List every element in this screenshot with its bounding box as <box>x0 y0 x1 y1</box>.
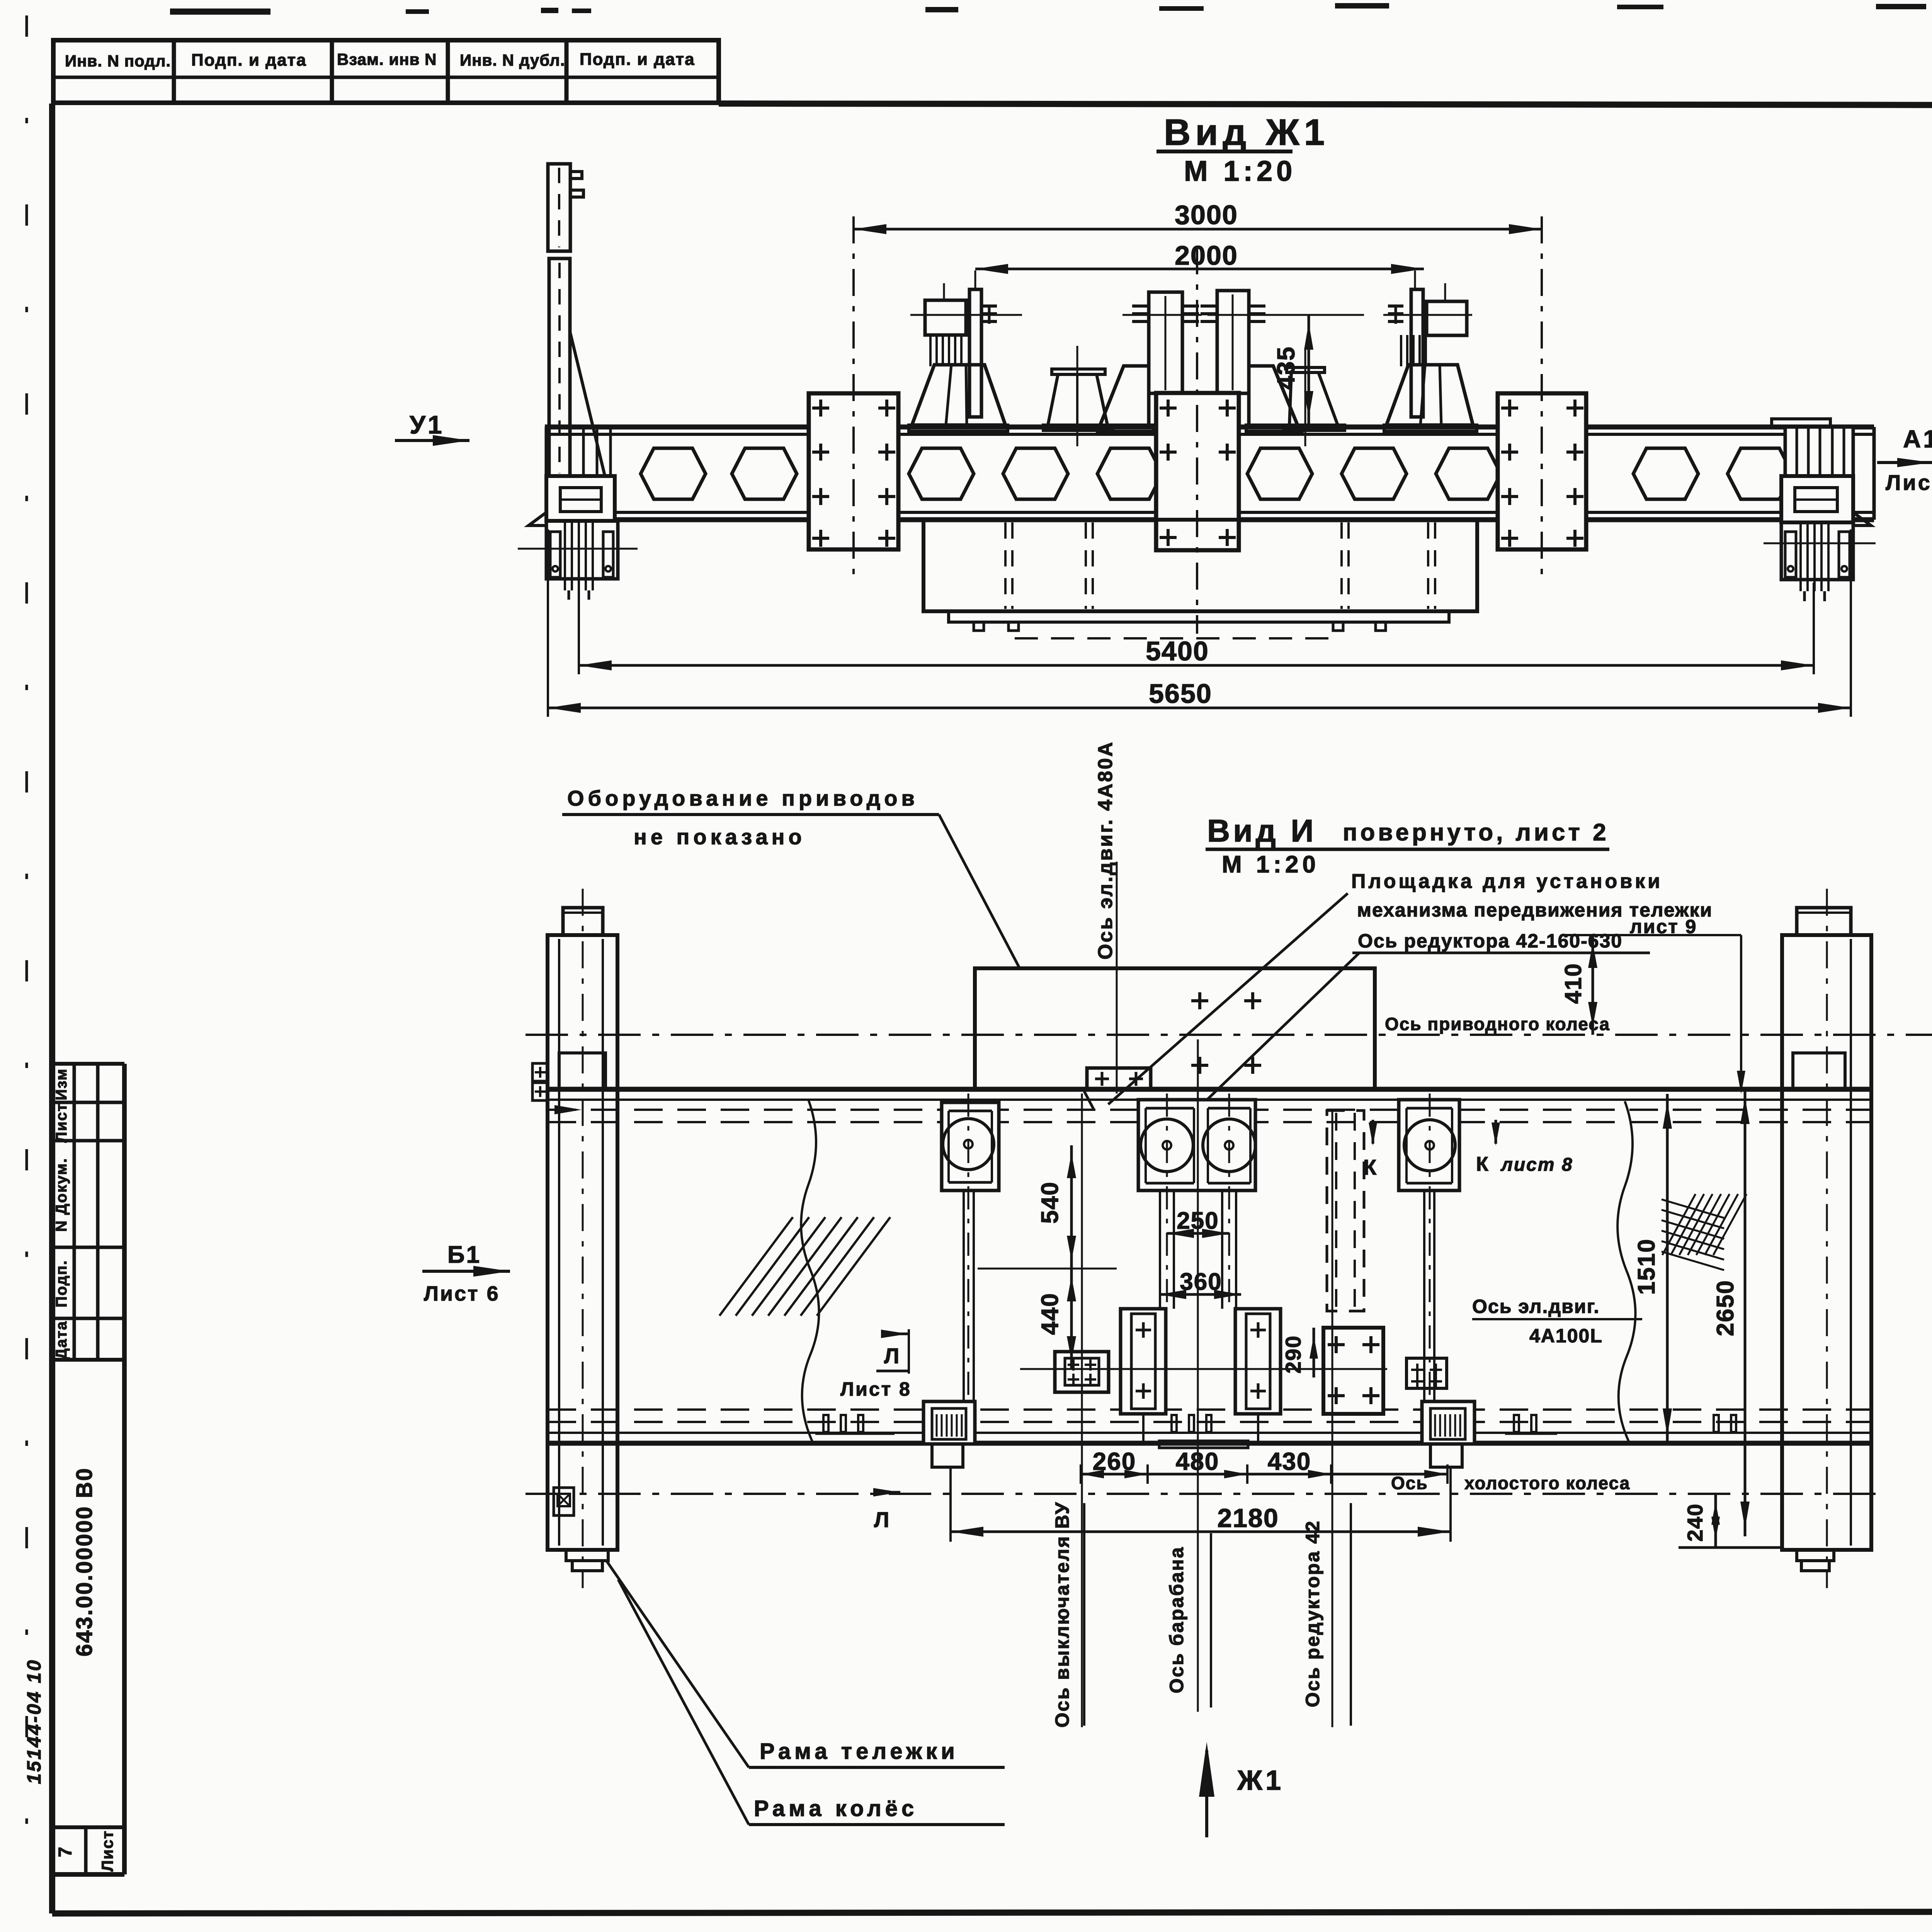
drive unit 1: centerlines <box>943 283 945 301</box>
svg-text:Ж1: Ж1 <box>1237 1765 1284 1796</box>
right clamp block <box>1235 1309 1281 1414</box>
svg-text:Взам. инв N: Взам. инв N <box>337 50 437 68</box>
drive unit 2: pedestal <box>1100 366 1149 425</box>
svg-text:Изм: Изм <box>53 1068 70 1100</box>
svg-text:Подп.: Подп. <box>53 1260 70 1307</box>
beam web hexagonal openings <box>641 448 706 499</box>
left column collar <box>559 1053 605 1089</box>
section mark Л Лист 8 <box>881 1330 908 1338</box>
dimension 5400 <box>578 583 580 674</box>
svg-text:М 1:20: М 1:20 <box>1184 155 1296 187</box>
drive unit 4: centerlines <box>1444 283 1446 302</box>
dimension 5650 <box>547 529 549 717</box>
dimension 3000 <box>854 228 1542 231</box>
svg-text:240: 240 <box>1683 1503 1707 1541</box>
svg-text:К: К <box>1476 1153 1490 1175</box>
dimension 540 <box>1070 1145 1073 1269</box>
dimension 435 <box>1308 315 1310 425</box>
castellated beam top flange <box>545 425 1874 430</box>
beam band bottom edge <box>548 1432 1871 1434</box>
svg-text:Б1: Б1 <box>447 1242 481 1268</box>
svg-text:410: 410 <box>1560 963 1586 1004</box>
svg-text:540: 540 <box>1037 1181 1063 1223</box>
svg-text:260: 260 <box>1093 1447 1136 1475</box>
left beam end bracket <box>546 476 615 521</box>
machinery platform <box>975 968 1375 1089</box>
bars below centre pulleys <box>1159 1190 1161 1309</box>
left column <box>548 935 617 1550</box>
dimension 250 <box>1167 1232 1229 1235</box>
svg-text:Ось: Ось <box>1391 1473 1428 1493</box>
centerline plate P3 <box>1541 216 1543 583</box>
small mounting plate <box>1406 1358 1447 1388</box>
svg-text:Лист 9: Лист 9 <box>1886 470 1932 495</box>
dimension 290 <box>1313 1328 1315 1378</box>
dimension 2180 <box>951 1531 1451 1533</box>
left mast lower segment <box>549 259 570 478</box>
reducer plate with bolts <box>1323 1328 1383 1414</box>
leader to platform from Площадка <box>1108 893 1348 1104</box>
svg-text:А1: А1 <box>1903 425 1932 453</box>
svg-text:Ось редуктора 42-160-630: Ось редуктора 42-160-630 <box>1358 930 1622 952</box>
leader lines лист 9 <box>1610 934 1741 936</box>
svg-text:К: К <box>1363 1155 1378 1179</box>
left column centerline <box>582 889 584 1588</box>
wavy break line left <box>801 1100 819 1441</box>
view direction arrow Ж1 <box>1205 1750 1208 1837</box>
svg-text:М 1:20: М 1:20 <box>1222 851 1320 878</box>
left end stiffeners <box>582 427 585 476</box>
svg-text:Лист: Лист <box>98 1830 116 1871</box>
left clamp block <box>1121 1309 1166 1414</box>
left wheel hanger (plan) <box>923 1401 975 1444</box>
svg-text:Дата: Дата <box>53 1321 70 1360</box>
beam band bottom dashed lines <box>548 1408 1871 1411</box>
svg-text:Ось выключателя ВУ: Ось выключателя ВУ <box>1051 1501 1073 1728</box>
svg-text:290: 290 <box>1281 1335 1305 1373</box>
svg-text:2000: 2000 <box>1175 240 1238 270</box>
left column foot <box>566 1550 608 1561</box>
left column lower bracket <box>554 1488 574 1515</box>
dimension 2000 <box>975 268 1424 270</box>
left mast upper segment <box>548 164 570 251</box>
svg-text:Вид И: Вид И <box>1207 813 1316 849</box>
drive housing box below beam <box>923 520 1477 611</box>
beam band top dashed lines <box>548 1109 1871 1111</box>
small gearbox <box>1055 1352 1109 1392</box>
svg-text:4А100L: 4А100L <box>1529 1325 1603 1347</box>
axis of idle wheel (chain line) <box>526 1493 1884 1495</box>
drive unit 3: column <box>1217 291 1249 393</box>
svg-text:Рама тележки: Рама тележки <box>760 1739 959 1764</box>
right column <box>1782 935 1871 1550</box>
mast bolts <box>570 172 582 179</box>
svg-text:холостого колеса: холостого колеса <box>1464 1473 1630 1493</box>
svg-text:Подп. и дата: Подп. и дата <box>580 50 695 69</box>
drive unit 4: sheave <box>1388 304 1403 308</box>
left margin dash-dot line <box>26 15 28 1874</box>
svg-text:2650: 2650 <box>1712 1280 1739 1336</box>
centerline plate P1 <box>852 216 855 583</box>
svg-text:2180: 2180 <box>1217 1503 1279 1533</box>
small stand A <box>1052 369 1105 374</box>
drum axis centerline <box>1197 1039 1199 1712</box>
drive unit 4: column <box>1411 289 1423 417</box>
svg-text:643.00.00000 В0: 643.00.00000 В0 <box>72 1467 97 1656</box>
beam band top edge <box>548 1087 1871 1092</box>
small plate on platform <box>1087 1068 1151 1089</box>
svg-text:360: 360 <box>1180 1269 1222 1295</box>
section arrow K лист 8 <box>1495 1120 1497 1144</box>
drive unit 1: column <box>969 289 981 417</box>
drive unit 1: pedestal <box>912 365 1005 425</box>
centerline plate P2 <box>1196 247 1198 634</box>
motor axis line <box>910 314 1022 316</box>
drive unit 3: sheaves <box>1201 304 1217 308</box>
drive unit 2: column <box>1149 292 1182 393</box>
dimension 1510 <box>1666 1094 1669 1443</box>
right column centerline <box>1826 889 1828 1588</box>
left side small plates <box>532 1063 548 1081</box>
svg-text:Ось эл.двиг. 4А80А: Ось эл.двиг. 4А80А <box>1094 741 1117 960</box>
svg-text:повернуто, лист 2: повернуто, лист 2 <box>1343 819 1609 846</box>
svg-text:Вид Ж1: Вид Ж1 <box>1164 112 1329 153</box>
diagonal hatch patch left <box>719 1217 793 1316</box>
dimensions 260 480 430 <box>1081 1473 1447 1476</box>
svg-text:250: 250 <box>1177 1207 1219 1234</box>
dimension 2650 <box>1744 1089 1747 1536</box>
svg-text:лист 8: лист 8 <box>1500 1155 1573 1175</box>
splice plate P1 <box>809 393 898 549</box>
left strip table <box>53 1062 124 1066</box>
axis line ВУ <box>1081 1094 1083 1727</box>
svg-text:Л: Л <box>884 1344 901 1368</box>
svg-text:3000: 3000 <box>1175 200 1238 230</box>
right pulley unit <box>1399 1100 1459 1190</box>
wavy break line right <box>1617 1101 1635 1441</box>
dimension 410 <box>1565 934 1610 936</box>
dashed reducer channel <box>1327 1111 1364 1311</box>
drive unit 4: motor <box>1427 301 1467 335</box>
svg-text:15144-04 10: 15144-04 10 <box>23 1659 45 1784</box>
axis эл.двиг vertical line <box>1116 862 1118 1094</box>
drive unit 4: belts <box>1400 335 1402 366</box>
svg-text:Лист 6: Лист 6 <box>424 1282 500 1305</box>
leader lines to frames <box>607 1561 749 1767</box>
dimension 240 bottom <box>1679 1546 1782 1549</box>
small stand C <box>1287 367 1325 372</box>
right wheel hanger (plan) <box>1422 1401 1475 1444</box>
svg-text:Оборудование приводов: Оборудование приводов <box>567 786 918 810</box>
beam bottom flange <box>545 511 1874 514</box>
svg-text:Рама колёс: Рама колёс <box>754 1796 918 1821</box>
svg-text:Ось барабана: Ось барабана <box>1166 1546 1187 1693</box>
svg-text:Ось эл.двиг.: Ось эл.двиг. <box>1472 1296 1600 1317</box>
svg-text:Площадка для установки: Площадка для установки <box>1351 870 1663 893</box>
svg-text:Л: Л <box>874 1507 891 1532</box>
svg-text:не показано: не показано <box>634 825 806 849</box>
beam end verticals <box>545 427 548 520</box>
svg-text:У1: У1 <box>410 410 444 439</box>
left wheel hanger <box>546 521 618 579</box>
section mark Л lower <box>873 1488 900 1497</box>
svg-text:Лист: Лист <box>53 1103 70 1143</box>
motor axis dash line <box>978 1268 1117 1270</box>
axis line редуктора <box>1332 1111 1333 1727</box>
svg-text:Лист 8: Лист 8 <box>840 1378 912 1400</box>
drive unit 2: sheaves <box>1132 304 1149 308</box>
drive unit 1: belts <box>929 335 932 366</box>
splice plate P2 <box>1156 393 1239 550</box>
comb ticks under beam <box>823 1415 828 1432</box>
left gusset <box>529 512 546 526</box>
svg-text:435: 435 <box>1272 346 1300 390</box>
svg-text:7: 7 <box>55 1846 76 1857</box>
svg-text:430: 430 <box>1268 1447 1311 1475</box>
top-left inventory table <box>53 40 719 103</box>
leader to platform from Ось редуктора <box>1199 953 1359 1107</box>
scan edge dashes top <box>170 9 270 15</box>
svg-text:5650: 5650 <box>1149 679 1212 709</box>
right beam end bracket <box>1781 476 1853 522</box>
drawing frame border <box>49 104 55 1913</box>
small arrow on beam at left column <box>554 1105 582 1114</box>
svg-text:Ось приводного колеса: Ось приводного колеса <box>1385 1014 1610 1034</box>
drive unit 1: sheave <box>981 304 997 308</box>
right column foot <box>1797 1550 1834 1561</box>
section arrow K <box>1372 1120 1374 1144</box>
svg-text:440: 440 <box>1037 1293 1063 1335</box>
svg-text:Ось редуктора 42: Ось редуктора 42 <box>1302 1520 1323 1707</box>
right gusset <box>1853 512 1871 526</box>
drive unit 4: pedestal <box>1386 365 1473 425</box>
svg-text:1510: 1510 <box>1633 1238 1660 1295</box>
mast diagonal brace <box>570 330 605 477</box>
left pulley unit <box>942 1102 999 1190</box>
right column collar <box>1793 1053 1845 1089</box>
svg-text:Подп. и дата: Подп. и дата <box>191 51 307 70</box>
svg-text:N Докум.: N Докум. <box>53 1158 70 1232</box>
centre pulley pair unit <box>1138 1100 1255 1190</box>
axis of drive wheel (chain line) <box>526 1034 1932 1036</box>
housing hooks <box>974 622 984 631</box>
splice plate P3 <box>1498 393 1586 549</box>
dimension 360 <box>1159 1293 1241 1296</box>
housing bottom lip <box>949 611 1449 622</box>
dimension 440 <box>1070 1269 1073 1369</box>
drive unit 3: pedestal <box>1249 366 1298 425</box>
svg-text:Инв. N дубл.: Инв. N дубл. <box>460 51 565 69</box>
drive unit 1: motor <box>925 300 966 335</box>
cross hatch patch right <box>1662 1194 1747 1270</box>
right wheel hanger <box>1781 522 1853 580</box>
svg-text:5400: 5400 <box>1146 636 1209 666</box>
svg-text:480: 480 <box>1176 1447 1219 1475</box>
right beam end stiffener block <box>1772 419 1830 427</box>
svg-text:Инв. N подл.: Инв. N подл. <box>65 52 171 70</box>
